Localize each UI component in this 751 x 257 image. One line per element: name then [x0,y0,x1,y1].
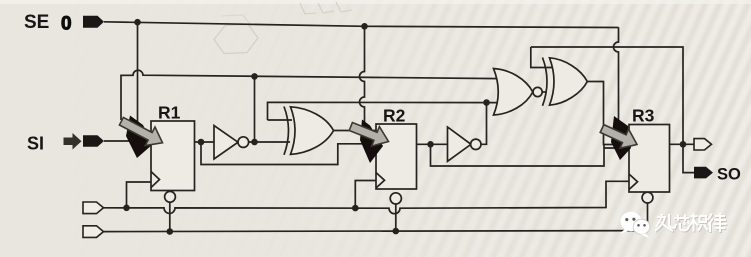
wire SE drop to R3 mux (hop over feedback) [614,27,619,134]
mux arrow R1 black [126,116,153,159]
wire R1 clock riser [127,182,152,208]
wire inverter1 output riser [254,76,256,142]
svg-text:0: 0 [61,14,72,35]
wire XOR1 output to R2 [333,130,377,132]
port RST bottom [83,226,104,238]
scan path arrow R3 gray [600,125,637,149]
node reset R1 stem [167,228,174,235]
wire W_B upper route [268,102,501,120]
scan path arrow R2 gray [349,123,388,147]
wire SE drop to R2 mux (hops over two wires) [360,26,365,138]
wire R2 scan-in route from R1 Q [201,142,377,165]
wire R3 scan-in route from R2 Q [431,144,630,166]
port SI input [83,135,104,147]
wire to SO port [683,144,694,172]
wire SI input [104,140,140,142]
icon SI arrow [64,133,82,150]
node inverter1 output junction [251,139,258,146]
watermark text 处芯积律 [656,214,728,233]
node SE junction 1 [134,19,141,26]
svg-text:R3: R3 [632,106,655,126]
wire R3 feedback to XOR2 [531,47,683,144]
clock pin R2 [376,173,385,189]
wire inverter2 out riser [481,103,487,145]
wire SE horizontal [104,22,619,28]
wire R1 Q to inverter1 [195,141,215,143]
xor gate X2 [543,58,548,106]
reset bubble R2 [390,193,401,204]
flip-flop R2 [376,124,417,189]
inverter U2 [448,127,472,161]
svg-text:SE: SE [24,12,49,33]
inverter U1 [214,126,238,160]
flip-flop R1 [151,121,195,191]
wire NOR output to XOR2 [542,91,546,93]
node clock R1 riser [123,205,130,212]
reset bubble R3 [642,192,653,203]
node R1 Q junction [198,139,205,146]
port CLK bottom [83,202,104,214]
wire reset rail [102,231,648,232]
node clock R2 riser [352,205,359,212]
wire R2 reset stem [395,204,397,231]
wire clock rail [102,181,629,213]
node R2 Q junction [427,141,434,148]
watermark wechat icon [619,212,650,238]
wire R2 clock riser [355,181,376,209]
port SO output [694,167,713,179]
svg-text:R1: R1 [158,103,181,123]
port Q output [694,139,712,150]
flip-flop R3 [629,125,670,193]
wire W_A R1 feedback rail [121,70,500,120]
mux arrow R2 black [360,120,383,164]
svg-text:SO: SO [717,166,741,184]
wire XOR2 output to R3 D [587,82,630,145]
node W_A inverter tap [251,73,258,80]
wire R3 Q output [670,143,695,145]
svg-text:SI: SI [27,134,44,154]
wire inverter1 out to XOR1 [249,141,291,143]
wire XOR1 top input jog [268,119,293,121]
node reset R2 stem [393,228,400,235]
wire XOR2 top input jog [531,47,552,68]
clock pin R3 [629,174,638,190]
nor gate G1 [494,69,533,116]
xor gate X1 [284,107,289,155]
node W_B inverter2 junction [483,99,490,106]
clock pin R1 [151,172,160,188]
mux arrow R3 black [611,116,631,160]
wire R2 Q to inverter2 [417,143,449,145]
wire R1 reset stem [169,203,171,232]
node R3 Q junction [680,141,687,148]
wire SE drop to R1 mux [137,22,139,122]
faint watermark marks top [300,2,352,14]
scan path arrow R1 gray [119,117,162,145]
svg-text:R2: R2 [383,106,406,126]
node SE junction 2 [361,23,368,30]
port SE input [83,16,104,28]
wire R3 reset stem [647,203,649,231]
reset bubble R1 [165,191,176,202]
faint hexagon watermark [214,25,258,54]
